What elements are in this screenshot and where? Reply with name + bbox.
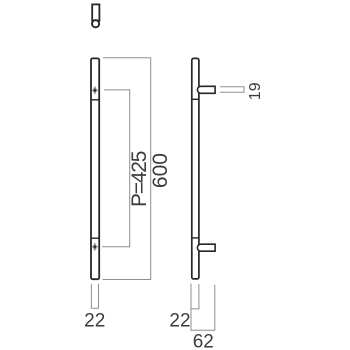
svg-text:62: 62 xyxy=(193,332,214,350)
svg-text:22: 22 xyxy=(169,310,190,331)
svg-text:P=425: P=425 xyxy=(128,151,151,207)
svg-text:600: 600 xyxy=(149,153,172,188)
svg-text:22: 22 xyxy=(84,311,105,332)
svg-text:19: 19 xyxy=(247,82,264,100)
